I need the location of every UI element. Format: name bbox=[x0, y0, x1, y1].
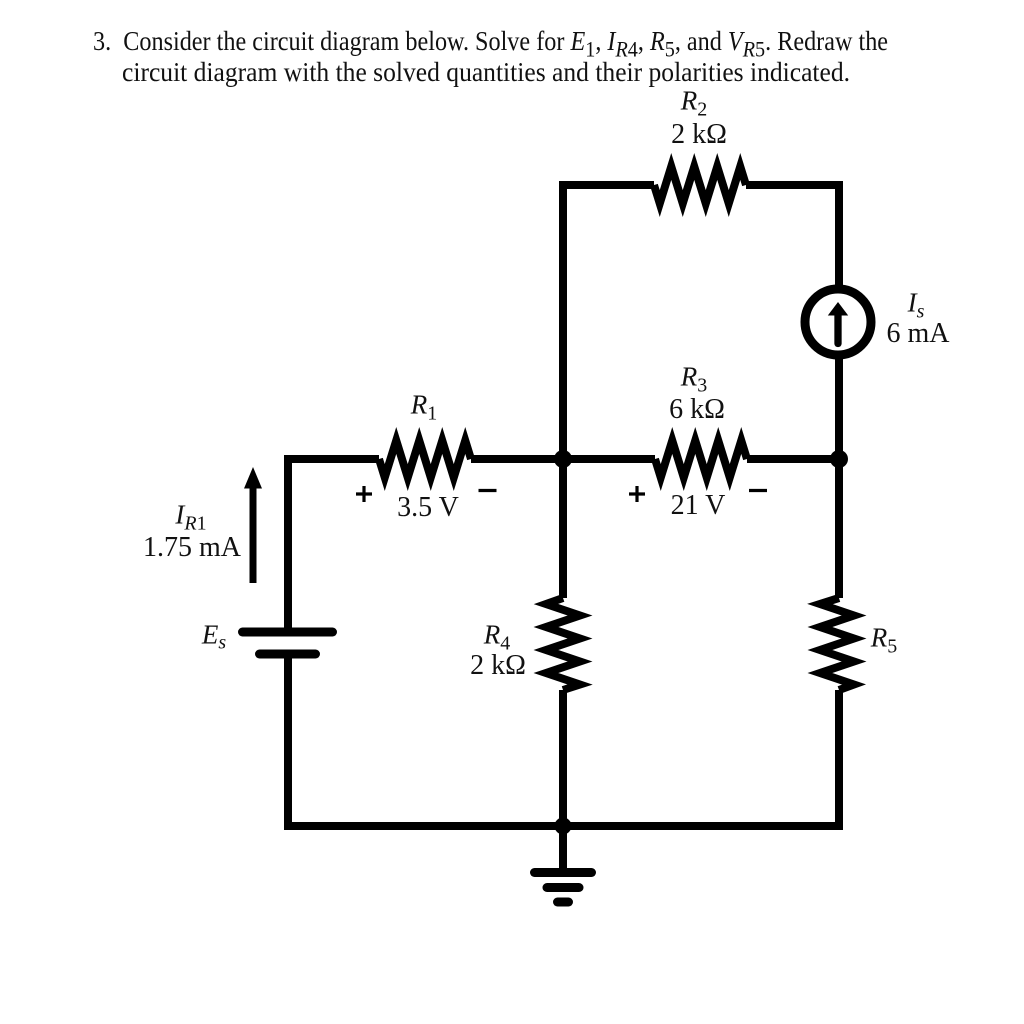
polarity plus sign (R3) bbox=[629, 486, 645, 502]
resistor R5 bbox=[820, 598, 854, 690]
value 1.75 mA (IR1) bbox=[143, 534, 241, 562]
resistor R2 bbox=[654, 167, 746, 204]
resistor R4 bbox=[546, 598, 580, 690]
wire top-left corner and middle vertical (down to R4 top lead) bbox=[563, 185, 654, 598]
label R4 bbox=[484, 622, 510, 649]
node B junction dot (right node) bbox=[830, 450, 848, 468]
resistor R1 bbox=[379, 441, 471, 478]
value 2 kOhm (R2) bbox=[671, 121, 727, 149]
problem statement text bbox=[0, 0, 1024, 1]
wire right vertical (current source to R5 top lead, through node B) bbox=[835, 354, 843, 598]
wire middle vertical lower (R4 bottom to ground node) bbox=[559, 690, 567, 826]
battery Es long (positive) plate bbox=[243, 628, 333, 637]
wire bottom-left corner (ground node to battery minus plate) bbox=[288, 654, 563, 826]
value 6 mA (Is) bbox=[887, 320, 950, 348]
label Is bbox=[908, 290, 925, 317]
label R5 bbox=[871, 625, 897, 652]
resistor R3 bbox=[655, 441, 747, 478]
node center junction dot bbox=[554, 450, 572, 468]
wire middle horizontal right (R3 right lead to node B) bbox=[747, 455, 839, 463]
value 2 kOhm (R4) bbox=[470, 652, 526, 680]
label R2 bbox=[681, 88, 707, 115]
current source Is (circle) bbox=[805, 289, 871, 355]
battery Es short (negative) plate bbox=[260, 650, 316, 659]
wire bottom-right corner (R5 bottom to ground node) bbox=[563, 690, 839, 826]
current arrow IR1 bbox=[244, 467, 262, 583]
label R1 bbox=[411, 392, 437, 419]
label Es bbox=[202, 621, 226, 648]
ground node junction dot bbox=[555, 818, 572, 835]
ground symbol bbox=[535, 826, 592, 902]
polarity minus sign (R1) bbox=[479, 489, 497, 492]
polarity minus sign (R3) bbox=[749, 489, 767, 492]
wire top-right corner (R2 right lead to current source) bbox=[746, 185, 839, 289]
value 6 kOhm (R3) bbox=[669, 396, 725, 424]
current source arrow bbox=[828, 302, 848, 344]
label R3 bbox=[681, 364, 707, 391]
value 3.5 V (R1) bbox=[397, 494, 459, 522]
polarity plus sign (R1) bbox=[356, 486, 372, 502]
value 21 V (R3) bbox=[671, 492, 726, 520]
wire middle horizontal (R1 right lead to R3 left lead) bbox=[471, 455, 655, 463]
label IR1 bbox=[175, 502, 206, 529]
wire left vertical and corner at node A (battery plus plate to R1 left lead) bbox=[288, 459, 379, 632]
